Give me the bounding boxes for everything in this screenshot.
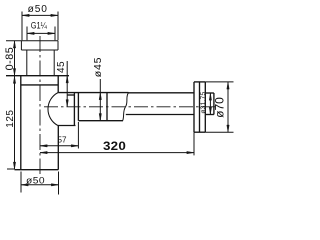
svg-text:G1¼: G1¼ xyxy=(31,21,47,31)
dim phi50 bottom: extension lines xyxy=(21,172,59,195)
svg-text:ø45: ø45 xyxy=(92,57,104,78)
dim 125: dimension line with arrows xyxy=(13,76,15,170)
pipe top edge (right of break, continues sleeve top) xyxy=(129,92,195,94)
dim 320: text xyxy=(103,139,126,153)
bottle bottom xyxy=(15,169,59,171)
dim phi45: text (rotated) xyxy=(92,57,104,78)
pipe stub end cap xyxy=(213,93,215,115)
bottle lid bottom edge xyxy=(21,84,58,86)
dim 57: dimension line with arrows xyxy=(40,145,78,147)
dim 0-85: text (rotated) xyxy=(4,47,16,71)
dim G1-1/4: extension lines xyxy=(27,27,55,41)
dim phi45: dimension line with arrows xyxy=(99,79,101,121)
bottle left wall xyxy=(20,76,22,170)
dim phi31.75: dimension line with arrows xyxy=(209,93,211,115)
pipe bottom edge (right of break) xyxy=(126,114,194,116)
dim 125: bottom extension tick xyxy=(7,168,15,170)
vertical centerline of bottle (dash-dot) xyxy=(39,36,41,174)
dim 57: text xyxy=(58,135,67,145)
outlet sleeve top edge xyxy=(58,92,128,94)
dim phi70: text (rotated) xyxy=(213,97,227,118)
horizontal centerline of pipe (dash-dot) xyxy=(44,106,217,108)
dim phi50 top: text xyxy=(28,4,48,15)
dim 45: text (rotated) xyxy=(56,61,67,73)
svg-text:320: 320 xyxy=(103,139,126,153)
wall flange inner groove xyxy=(199,82,201,132)
top flange of tailpiece xyxy=(6,41,58,50)
dim phi70: dimension line with arrows xyxy=(227,82,229,132)
dim 0-85: dimension line with arrows xyxy=(13,41,15,76)
dim phi31.75: text (rotated) xyxy=(200,92,207,114)
flange top edge + phi70 extension xyxy=(194,81,205,83)
wall flange right face xyxy=(204,82,206,132)
dim phi50 top: extension lines xyxy=(22,12,58,41)
boss intersection arc xyxy=(48,93,58,126)
washer face right / nut left face xyxy=(77,93,79,121)
svg-text:57: 57 xyxy=(58,135,67,145)
dim 320: dimension line with arrows xyxy=(40,151,194,153)
pipe break S-curve xyxy=(123,93,129,121)
washer face left xyxy=(73,93,75,126)
tailpiece body xyxy=(27,50,54,76)
dim phi50 bottom: text xyxy=(26,175,45,185)
flange bottom edge + phi70 extension xyxy=(194,131,205,133)
svg-text:45: 45 xyxy=(56,61,67,73)
svg-text:ø31.75: ø31.75 xyxy=(200,92,207,114)
nut right face xyxy=(106,93,108,121)
svg-text:ø70: ø70 xyxy=(213,97,227,118)
bottle right wall upper segment xyxy=(57,76,59,93)
svg-text:ø50: ø50 xyxy=(28,4,48,15)
dim phi50 bottom: dimension line with arrows xyxy=(21,184,59,186)
svg-text:ø50: ø50 xyxy=(26,175,45,185)
small step line on boss xyxy=(68,94,75,96)
dim phi50 top: dimension line with arrows xyxy=(22,14,58,16)
nut bottom edge xyxy=(78,120,123,122)
dim 57: right extension line xyxy=(77,122,79,149)
bottle right wall lower segment xyxy=(57,126,59,170)
dim 125: text (rotated) xyxy=(5,110,16,128)
horizontal line at top of locking nut xyxy=(6,75,69,77)
wall flange left face + 320 extension xyxy=(193,82,195,132)
dim G1-1/4: text xyxy=(31,21,47,31)
dim 45: dimension line with arrows xyxy=(66,61,68,107)
boss bottom edge xyxy=(58,125,76,127)
pipe stub bottom xyxy=(205,114,214,116)
dim G1-1/4: dimension line with arrows xyxy=(27,32,55,34)
pipe stub top xyxy=(205,92,214,94)
